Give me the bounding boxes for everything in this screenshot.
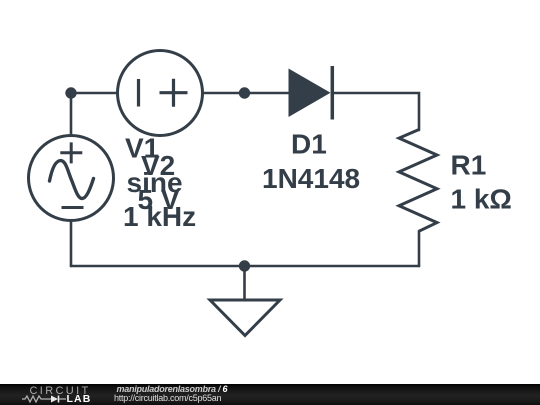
diode D1 cathode bar: [331, 66, 335, 120]
V1 plus sign: [160, 79, 188, 107]
svg-text:1N4148: 1N4148: [262, 163, 360, 194]
svg-text:R1: R1: [451, 150, 487, 181]
node junction dot top-left: [65, 87, 76, 98]
footer bar: [0, 384, 540, 405]
node junction dot top-center: [239, 87, 250, 98]
wire right vertical bottom: [418, 231, 421, 266]
voltage source V2 (sine) body: [29, 136, 114, 221]
svg-text:1 kHz: 1 kHz: [123, 201, 196, 232]
svg-text:D1: D1: [291, 129, 327, 160]
svg-text:1 kΩ: 1 kΩ: [451, 184, 512, 215]
V2 sine wave: [50, 161, 94, 199]
V2 minus sign: [62, 206, 84, 209]
logo diode: [51, 395, 58, 402]
ground stem wire: [243, 266, 246, 300]
footer text line 1: [117, 385, 228, 394]
wire left vertical bottom: [70, 222, 73, 266]
diode D1 triangle: [289, 69, 331, 118]
voltage source V1 (DC) body: [118, 51, 203, 136]
CircuitLab logo wordmark CIRCUIT: [30, 386, 91, 397]
V1 minus bar: [137, 79, 140, 107]
CircuitLab logo resistor+diode glyph and LAB: [20, 394, 95, 405]
resistor R1 zigzag: [399, 130, 437, 232]
ground symbol triangle: [210, 300, 280, 336]
wire bottom rail: [71, 265, 419, 268]
wire diode cathode to top-right corner and down: [334, 93, 419, 130]
V2 plus sign: [60, 142, 82, 163]
node junction dot bottom (ground node): [239, 260, 250, 271]
footer text line 2: [114, 394, 221, 403]
wire V1 to diode: [204, 92, 288, 95]
wire top-left horizontal: [71, 92, 116, 95]
logo resistor zigzag: [22, 396, 48, 402]
wire left vertical top: [70, 93, 73, 134]
